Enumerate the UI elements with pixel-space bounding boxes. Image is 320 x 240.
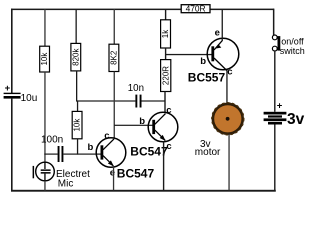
wire R5 column top [165,9,166,20]
svg-text:1k: 1k [161,29,170,38]
svg-text:motor: motor [195,147,221,158]
svg-text:10u: 10u [21,93,38,104]
wire bottom rail [11,190,276,192]
wire R3 bottom to Q1 collector [114,72,115,138]
svg-text:c: c [166,105,171,116]
transistor Q2 BC547 [148,112,178,142]
wire switch to battery [274,51,275,112]
resistor R6 220R [161,60,171,92]
svg-text:switch: switch [280,46,305,56]
wire motor to rail [228,134,229,191]
wire R1 to mic [44,72,45,163]
svg-text:BC547: BC547 [130,144,168,158]
resistor R1 10k [40,46,50,72]
wire R6 bottom to Q2 collector [164,92,165,113]
motor M1 [212,103,244,135]
wire C2 to Q2 collector node [142,100,166,101]
transistor Q3 BC557 [207,38,239,70]
svg-text:e: e [110,168,115,179]
wire R3 column top [114,9,115,44]
svg-text:b: b [88,142,94,153]
resistor R7 470R [181,5,210,13]
svg-text:820k: 820k [71,48,80,66]
svg-text:10k: 10k [73,118,82,132]
svg-text:e: e [215,27,220,38]
wire Q1 collector to Q2 base [114,125,152,126]
wire R4 stub top [77,101,78,111]
resistor R3 8K2 [109,44,119,71]
electret mic MIC1 [33,162,55,181]
svg-text:c: c [104,131,109,142]
svg-text:100n: 100n [41,135,63,146]
svg-text:3v: 3v [287,111,305,128]
wire C3 to Q1 base [63,154,101,155]
wire Q3 emitter to rail [222,9,223,40]
svg-text:b: b [139,116,145,127]
svg-text:b: b [200,56,206,67]
svg-text:8K2: 8K2 [110,50,119,65]
resistor R2 820k [71,43,81,71]
switch SW1 circles [272,35,277,40]
svg-text:+: + [277,100,283,111]
wire R2 column top [76,9,77,43]
wire R2 bottom to node [76,71,77,102]
battery B1 plates [264,112,287,115]
svg-text:220R: 220R [161,66,170,85]
resistor R5 1k [161,20,171,48]
wire R5 to R6 junction [165,48,166,60]
svg-text:Mic: Mic [58,178,74,189]
svg-text:+: + [5,83,11,94]
svg-text:470R: 470R [186,3,206,13]
wire mic node to C3 [44,154,57,155]
wire left rail upper [11,9,13,93]
svg-text:BC557: BC557 [188,71,226,85]
wire top rail left segment [11,9,182,11]
resistor R4 10k [72,111,82,138]
capacitor C3 100n plates [58,146,60,162]
wire Q3 collector to motor [226,70,227,104]
wire left rail lower [11,99,13,192]
svg-text:c: c [227,67,232,78]
svg-text:10k: 10k [40,52,49,66]
transistor Q1 BC547 [96,138,126,168]
wire node to C2 horizontal [76,100,135,101]
svg-text:10n: 10n [128,83,144,94]
capacitor C2 10n plates [135,95,137,108]
wire Q2 emitter to rail [163,141,164,190]
svg-text:BC547: BC547 [117,166,155,180]
wire R4 bottom [77,139,78,155]
wire junction to Q3 base [166,54,213,55]
capacitor C1 10u plates [4,93,21,94]
svg-text:on/off: on/off [281,37,304,47]
wire mic bottom [44,181,45,191]
wire battery to rail [274,125,275,191]
wire top rail right segment [210,9,275,11]
wire right column top [273,9,275,35]
wire Q1 emitter to rail [113,167,114,191]
wire R1 column top [44,9,45,46]
switch SW1 lever [278,36,281,51]
